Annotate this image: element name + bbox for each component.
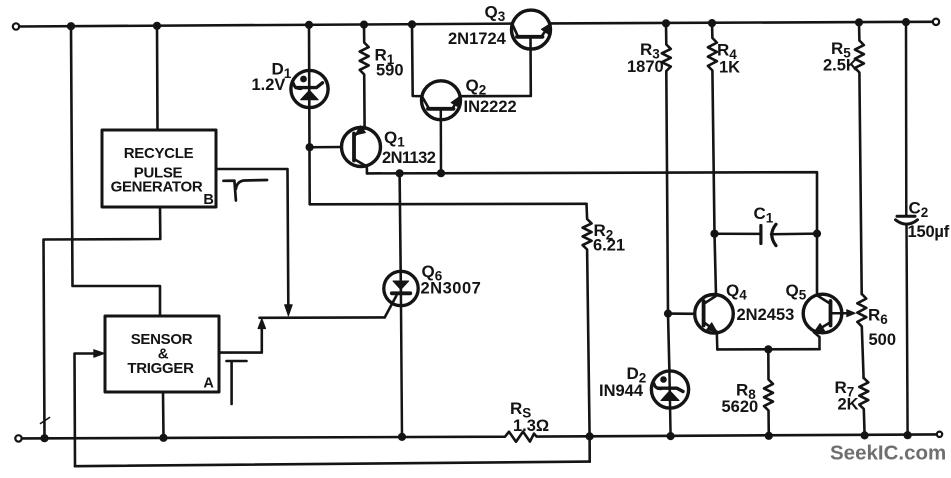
svg-text:1.3Ω: 1.3Ω bbox=[513, 417, 549, 435]
wire: sensor trigger output A (right then up arrow) bbox=[219, 325, 262, 353]
label Q2 bbox=[466, 76, 487, 98]
wire: Q4 base lead bbox=[668, 312, 695, 315]
svg-text:IN944: IN944 bbox=[599, 382, 644, 400]
label R5 bbox=[831, 39, 851, 61]
diode D2 IN944 (zener in circle) bbox=[651, 371, 688, 436]
block: RECYCLE PULSE GENERATOR (B) bbox=[102, 130, 216, 207]
label Q5 bbox=[786, 281, 807, 303]
label RS bbox=[510, 399, 531, 421]
label 1K bbox=[719, 59, 740, 77]
node: junction C1 right plate on Q5 collector line bbox=[813, 230, 821, 238]
label 2K bbox=[838, 396, 859, 414]
label 1.3ohm bbox=[513, 417, 549, 435]
wire: recycle output B (right then down to arrow) bbox=[216, 169, 288, 304]
svg-text:RECYCLE: RECYCLE bbox=[124, 145, 194, 162]
label 500 bbox=[869, 331, 897, 349]
svg-text:TRIGGER: TRIGGER bbox=[127, 360, 194, 377]
label 5620 bbox=[722, 398, 759, 416]
svg-text:5620: 5620 bbox=[722, 398, 759, 416]
transistor Q5 2N2453 (NPN, right of pair, mirrored) bbox=[803, 294, 848, 349]
resistor R5 2.5K bbox=[855, 22, 864, 294]
resistor R7 2K bbox=[859, 378, 868, 435]
label R7 bbox=[835, 378, 855, 400]
wire: recycle box bottom return (down, left, down to bottom rail) bbox=[44, 207, 161, 438]
label 1.2V bbox=[252, 76, 286, 94]
wire: Q6 anode lead from collector bus bbox=[400, 173, 401, 292]
waveform: step symbol (A output) bbox=[227, 361, 247, 404]
node: top rail junction dots bbox=[67, 18, 910, 30]
label IN944 bbox=[599, 382, 644, 400]
label 150uf bbox=[908, 223, 950, 241]
svg-text:IN2222: IN2222 bbox=[464, 98, 517, 116]
wire: sense feedback line (from lower bus up to sensor input) bbox=[75, 354, 97, 467]
resistor R6 500 (with wiper arrow) bbox=[857, 294, 866, 378]
label C2 bbox=[909, 199, 929, 221]
resistor R1 590 bbox=[360, 25, 369, 128]
node: Q4 base junction on R3 line bbox=[664, 310, 672, 318]
wire: common emitter bus Q4-Q5 bbox=[717, 348, 819, 351]
svg-text:2N2453: 2N2453 bbox=[737, 306, 795, 324]
label IN2222 bbox=[464, 98, 517, 116]
label 2N3007 bbox=[421, 280, 482, 298]
waveform: negative spike pulse symbol (B output) bbox=[224, 180, 268, 201]
label 1870 bbox=[627, 58, 664, 76]
label R4 bbox=[717, 41, 737, 63]
node: junction Q6 anode on collector bus bbox=[396, 169, 404, 177]
label Q6 bbox=[422, 262, 443, 284]
svg-text:150µf: 150µf bbox=[908, 223, 950, 241]
label R8 bbox=[736, 381, 756, 403]
arrowhead: trigger into Q6 gate wire bbox=[258, 319, 266, 329]
wire: top rail right segment (Q3 emitter to output +) bbox=[551, 22, 933, 24]
node: junction Q2 base on collector bus bbox=[437, 169, 445, 177]
transistor Q4 2N2453 (NPN, left of pair) bbox=[695, 295, 734, 350]
svg-text:1K: 1K bbox=[719, 59, 740, 77]
node: R8 junction on emitter bus bbox=[764, 345, 772, 353]
node: Q1 base junction on D1 line bbox=[306, 143, 314, 151]
label 2N2453 bbox=[737, 306, 795, 324]
svg-text:2N1724: 2N1724 bbox=[448, 30, 507, 48]
transistor Q2 IN2222 (NPN) bbox=[422, 81, 461, 173]
svg-text:590: 590 bbox=[376, 62, 404, 80]
label C1 bbox=[754, 204, 774, 226]
svg-text:2N3007: 2N3007 bbox=[421, 280, 482, 298]
wire: rail to recycle box top bbox=[156, 26, 159, 130]
label 590 bbox=[376, 62, 404, 80]
svg-text:500: 500 bbox=[869, 331, 897, 349]
watermark SeekIC.com bbox=[830, 442, 946, 465]
label R6 bbox=[868, 306, 888, 328]
arrowhead: into sensor input bbox=[94, 350, 105, 358]
label Q4 bbox=[726, 281, 747, 303]
capacitor C1 bbox=[715, 224, 818, 245]
svg-text:1.2V: 1.2V bbox=[252, 76, 286, 94]
wire: Q2 emitter to Q3 base bbox=[460, 37, 531, 96]
label R3 bbox=[640, 40, 660, 62]
label 2.5K bbox=[823, 57, 858, 75]
resistor R3 1870 bbox=[662, 23, 671, 371]
resistor R8 5620 bbox=[764, 349, 773, 435]
wire: top rail left segment (input + to Q3 collector) bbox=[19, 24, 512, 27]
svg-text:1870: 1870 bbox=[627, 58, 664, 76]
svg-text:2K: 2K bbox=[838, 396, 859, 414]
wire: rail to sensor&trigger top (down, right, down) bbox=[71, 26, 160, 316]
label 6.21 bbox=[593, 237, 625, 255]
label D2 bbox=[627, 364, 647, 386]
svg-text:2.5K: 2.5K bbox=[823, 57, 858, 75]
diode D1 1.2V (zener in circle) bbox=[291, 70, 328, 107]
wire: Q6 gate bus bbox=[260, 316, 385, 319]
svg-text:GENERATOR: GENERATOR bbox=[111, 179, 203, 196]
resistor R2 6.21 bbox=[583, 204, 592, 462]
SCR Q6 2N3007 bbox=[384, 271, 418, 437]
label 2N1724 bbox=[448, 30, 507, 48]
svg-text:SeekIC.com: SeekIC.com bbox=[830, 442, 946, 465]
label R2 bbox=[594, 221, 614, 243]
label R1 bbox=[375, 46, 395, 68]
arrowhead: recycle pulse into Q6 gate wire bbox=[285, 305, 293, 316]
block: SENSOR & TRIGGER (A) bbox=[105, 316, 219, 392]
svg-text:A: A bbox=[203, 376, 214, 392]
label 2N1132 bbox=[382, 149, 436, 167]
node: junction C1 left plate on R4/Q4 collector line bbox=[710, 230, 718, 238]
svg-text:6.21: 6.21 bbox=[593, 237, 625, 255]
capacitor C2 150uf bbox=[896, 22, 918, 435]
transistor Q1 2N1132 (PNP) bbox=[310, 126, 381, 174]
terminal: top-left input bbox=[13, 23, 19, 29]
wire: Q1 collector bus (y~173) to Q5 collector / C1 right bbox=[367, 172, 817, 295]
svg-text:2N1132: 2N1132 bbox=[382, 149, 436, 167]
label Q1 bbox=[384, 128, 405, 150]
wire: rail down to Q2 collector bbox=[412, 24, 422, 96]
wire: lower return bus bbox=[75, 462, 590, 467]
wire: D1 branch (rail down through D1, Q1 base node, to R2 corner) bbox=[309, 25, 587, 204]
wire: bottom rail with series resistor RS bbox=[22, 432, 937, 442]
resistor R4 1K bbox=[708, 23, 717, 295]
transistor Q3 2N1724 (NPN series pass) bbox=[512, 10, 551, 49]
label D1 bbox=[272, 60, 292, 82]
wire: sensor box bottom to ground rail bbox=[162, 392, 165, 438]
arrowhead: Q5 base wiper into R6 bbox=[847, 310, 856, 317]
terminal: bottom-left bbox=[15, 435, 21, 441]
terminal: top-right output bbox=[933, 19, 939, 25]
svg-text:B: B bbox=[203, 192, 213, 208]
label Q3 bbox=[485, 3, 506, 25]
tick mark on left return wire bbox=[41, 418, 50, 424]
terminal: bottom-right bbox=[937, 432, 942, 437]
node: bottom rail junction dots bbox=[40, 431, 911, 442]
